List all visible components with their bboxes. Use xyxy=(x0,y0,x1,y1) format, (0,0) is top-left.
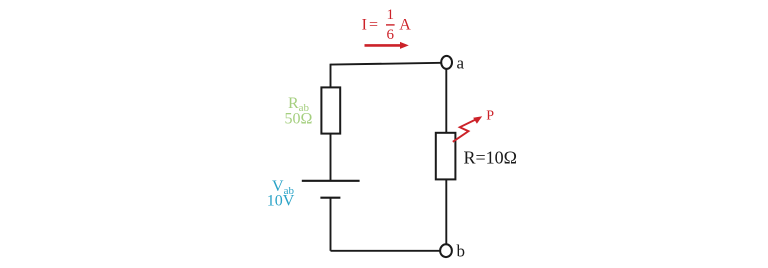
current label I = 1/6 A xyxy=(362,7,412,43)
resistor Rab xyxy=(285,87,341,133)
wire top horizontal xyxy=(331,63,442,65)
node b xyxy=(440,242,465,261)
current arrow xyxy=(365,42,409,49)
wire right upper vertical xyxy=(445,69,447,133)
svg-text:=: = xyxy=(369,17,378,34)
wire right lower vertical xyxy=(445,179,447,244)
svg-text:A: A xyxy=(399,17,411,34)
wire bottom horizontal xyxy=(331,250,441,252)
wire left lower vertical xyxy=(330,198,332,251)
svg-text:10V: 10V xyxy=(267,193,295,210)
svg-text:I: I xyxy=(362,17,367,34)
node a xyxy=(441,54,464,73)
svg-text:1: 1 xyxy=(387,7,395,23)
wire left middle vertical xyxy=(330,134,332,180)
svg-text:R=10Ω: R=10Ω xyxy=(464,148,518,168)
svg-text:b: b xyxy=(457,242,466,261)
svg-text:6: 6 xyxy=(387,27,395,43)
svg-text:50Ω: 50Ω xyxy=(285,111,313,128)
svg-text:P: P xyxy=(486,109,494,124)
wire left upper vertical xyxy=(330,64,332,88)
power arrow P xyxy=(453,109,495,142)
resistor R xyxy=(436,133,517,180)
svg-text:a: a xyxy=(457,54,465,73)
battery Vab xyxy=(267,178,360,210)
